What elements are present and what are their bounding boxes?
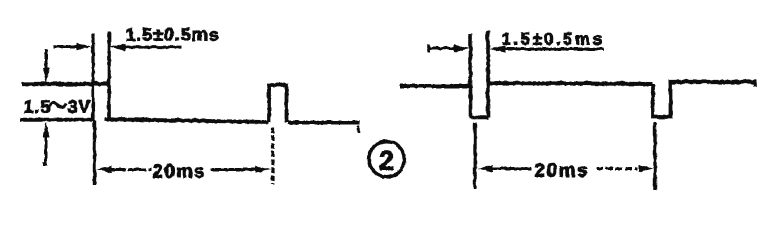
amplitude down arrow xyxy=(44,49,47,70)
20ms right extension line waveform 1 xyxy=(270,127,273,184)
waveform 1 low line after second pulse xyxy=(287,120,359,124)
waveform 2 high level line segment 2 xyxy=(488,83,653,84)
20ms left extension line waveform 2 xyxy=(473,122,476,188)
20ms left extension line waveform 1 xyxy=(92,120,95,184)
20ms dimension right arrow waveform 2 xyxy=(596,167,637,170)
waveform 1 falling edge xyxy=(107,31,111,119)
20ms dimension left arrow waveform 1 xyxy=(108,168,151,171)
scan blob at line end xyxy=(753,82,757,87)
20ms dimension left arrow waveform 2 xyxy=(490,167,531,170)
svg-text:3V: 3V xyxy=(67,96,91,116)
svg-text:1.5: 1.5 xyxy=(23,96,50,116)
waveform 1 low level line xyxy=(104,119,268,122)
circled figure number 2 xyxy=(368,141,404,177)
dimension arrow right (1.5±0.5ms) waveform 1 xyxy=(123,45,181,48)
waveform 2 high level line segment 1 xyxy=(399,84,470,88)
waveform 1 low level extension line xyxy=(20,117,91,121)
stray scan mark xyxy=(357,125,360,132)
waveform 2 first notch rising edge with extension xyxy=(486,30,490,117)
waveform 2 second notch xyxy=(653,82,671,117)
dimension arrow left (1.5±0.5ms) waveform 2 xyxy=(427,44,430,52)
svg-text:1.5±0.5ms: 1.5±0.5ms xyxy=(501,29,604,48)
waveform 1 pulse rising-edge extension line xyxy=(91,33,94,120)
dimension arrow left (1.5±0.5ms) waveform 1 xyxy=(53,45,78,48)
svg-text:20ms: 20ms xyxy=(534,160,589,181)
svg-text:2: 2 xyxy=(378,145,393,175)
20ms right extension line waveform 2 xyxy=(653,122,656,190)
waveform 2 first notch falling edge with extension xyxy=(468,33,472,117)
svg-text:20ms: 20ms xyxy=(152,161,205,182)
dimension arrow right (1.5±0.5ms) waveform 2 xyxy=(503,47,603,50)
20ms dimension right arrow waveform 1 xyxy=(210,168,257,171)
svg-text:1.5±0.5ms: 1.5±0.5ms xyxy=(125,24,219,44)
waveform 1 second pulse xyxy=(269,85,287,123)
waveform 2 first notch bottom xyxy=(469,115,489,119)
amplitude up arrow xyxy=(44,136,47,164)
waveform 2 high level line segment 3 xyxy=(668,79,756,83)
waveform 1 high level line xyxy=(21,81,109,85)
